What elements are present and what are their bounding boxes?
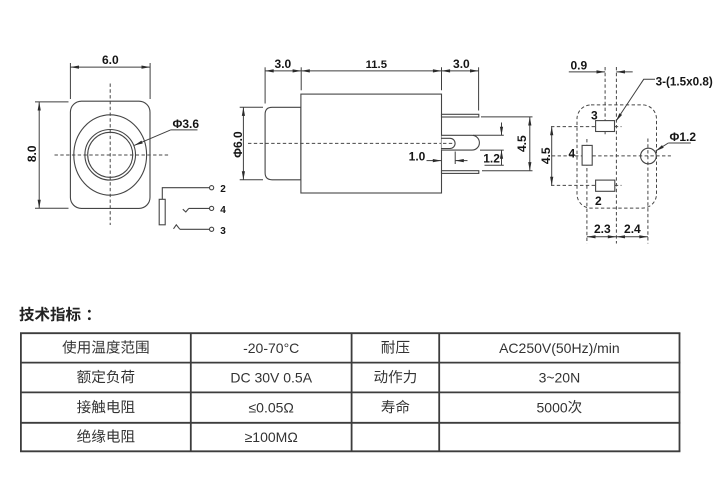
- side view: threaded bushing: [265, 107, 301, 180]
- rear view: pin 2 centerline (horizontal): [551, 184, 622, 186]
- svg-text:4: 4: [568, 147, 575, 161]
- schematic switch contact tick on 4: [183, 208, 189, 212]
- svg-text:2: 2: [220, 184, 226, 195]
- svg-text:1.0: 1.0: [409, 149, 426, 163]
- rear view: pin 3 centerline (vertical): [604, 67, 606, 136]
- table row 1: withstand voltage: [382, 340, 410, 353]
- dimensions 3.0 / 11.5 / 3.0 (top chain): [264, 67, 266, 103]
- table row 3: contact resistance: [77, 400, 134, 414]
- svg-text:4: 4: [220, 205, 226, 216]
- svg-text:5000: 5000: [537, 400, 568, 416]
- svg-text:11.5: 11.5: [366, 59, 387, 71]
- schematic terminal 4: [210, 206, 214, 210]
- svg-text:AC250V(50Hz)/min: AC250V(50Hz)/min: [499, 340, 620, 356]
- rear view: pin 3 pad: [596, 121, 615, 132]
- svg-text:0.9: 0.9: [570, 58, 587, 72]
- side view: top pin (terminal): [442, 114, 479, 117]
- svg-text:Φ6.0: Φ6.0: [231, 131, 245, 158]
- table row 4: insulation resistance: [77, 429, 134, 443]
- rear view: pin 3 centerline (horizontal): [551, 126, 622, 128]
- schematic terminal 2: [210, 186, 214, 190]
- dimension 4.5 (pin spacing, side view): [481, 116, 533, 118]
- side view: horizontal centerline: [248, 142, 455, 144]
- schematic switch contact tick on 3: [174, 225, 180, 230]
- dimension 2.3: [587, 236, 617, 238]
- rear view: hole centerline (vertical): [647, 139, 649, 244]
- svg-text:≥100MΩ: ≥100MΩ: [245, 429, 298, 445]
- schematic sleeve contact bar: [159, 199, 165, 225]
- side view: middle switch pin outer outline: [442, 135, 480, 150]
- svg-text:1.2: 1.2: [483, 152, 500, 166]
- rear view: body vertical centerline: [615, 67, 617, 244]
- dimension 4.5 (pin spacing, rear view): [551, 127, 553, 186]
- dimension 8.0 (front height): [35, 101, 69, 103]
- svg-text:Φ3.6: Φ3.6: [173, 117, 200, 131]
- table row 1: operating temperature range: [62, 340, 148, 354]
- spec table grid: [20, 333, 680, 451]
- side view: centerline continuation inside slot: [443, 142, 455, 144]
- svg-text:DC 30V 0.5A: DC 30V 0.5A: [230, 369, 312, 385]
- dimension 6.0 (front width): [69, 63, 71, 99]
- svg-text:≤0.05Ω: ≤0.05Ω: [248, 400, 293, 416]
- dimension 2.4: [616, 236, 648, 238]
- svg-text:-20-70°C: -20-70°C: [243, 340, 299, 356]
- side view: middle switch pin inner slot: [442, 138, 456, 148]
- svg-text:3~20N: 3~20N: [539, 369, 581, 385]
- front view: horizontal centerline: [55, 154, 171, 156]
- table row 2: operating force: [374, 370, 416, 383]
- front view: outer boss circle: [74, 115, 147, 195]
- svg-text:2.4: 2.4: [624, 222, 641, 236]
- heading: technical specifications: [19, 307, 80, 322]
- side view: main body: [301, 94, 442, 193]
- rear view: middle horizontal centerline: [552, 155, 671, 157]
- rear view: pin 4 pad: [582, 145, 592, 165]
- side view: bottom pin (terminal): [442, 171, 479, 174]
- svg-text:2: 2: [595, 194, 602, 208]
- rear view: pin 2 pad: [596, 180, 615, 191]
- front view: jack hole inner ring: [88, 132, 133, 177]
- schematic wire: terminal 3: [180, 228, 210, 230]
- svg-text:Φ1.2: Φ1.2: [670, 130, 697, 144]
- svg-text:6.0: 6.0: [102, 53, 119, 67]
- svg-text:3.0: 3.0: [453, 57, 470, 71]
- rear view: phi 1.2 hole: [641, 148, 657, 164]
- schematic wire: terminal 4: [189, 207, 210, 209]
- schematic terminal 3: [210, 227, 214, 231]
- front view: vertical centerline: [109, 84, 111, 226]
- dimension phi 6.0 (bushing): [240, 106, 263, 108]
- rear view: pin 4 centerline (vertical): [586, 139, 588, 244]
- front view: jack body outline: [70, 101, 150, 208]
- svg-text:4.5: 4.5: [539, 147, 553, 164]
- schematic wire: terminal 2 to sleeve: [162, 187, 209, 189]
- svg-text:8.0: 8.0: [25, 145, 39, 162]
- front view: jack hole outer ring (phi 3.6): [85, 130, 136, 181]
- svg-text:3-(1.5x0.8): 3-(1.5x0.8): [656, 76, 713, 89]
- svg-text:3: 3: [220, 226, 226, 237]
- svg-text:2.3: 2.3: [594, 222, 611, 236]
- svg-text:3.0: 3.0: [275, 57, 292, 71]
- table row 3: lifespan: [381, 400, 409, 414]
- svg-text:4.5: 4.5: [515, 135, 529, 152]
- rear view: body outline (hidden/dashed): [577, 105, 657, 208]
- svg-text:3: 3: [591, 109, 598, 123]
- dimension 1.2 (switch pin width): [473, 134, 504, 136]
- table row 2: rated load: [77, 370, 134, 384]
